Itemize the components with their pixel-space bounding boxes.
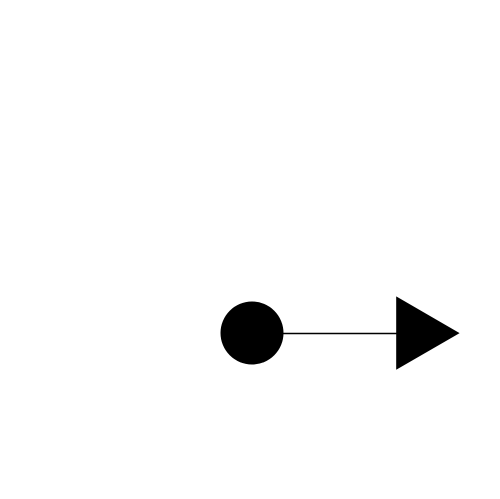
- node A (filled junction dot): [221, 302, 284, 365]
- arrowhead (directed-edge terminal): [396, 296, 459, 369]
- wire: [282, 333, 397, 335]
